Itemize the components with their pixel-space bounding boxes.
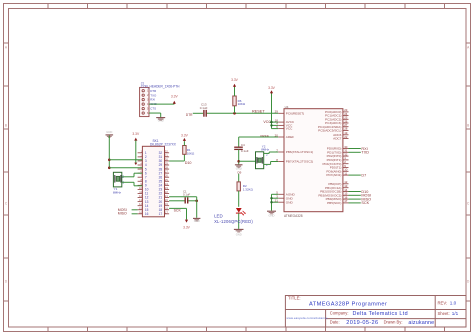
svg-text:SCK: SCK bbox=[174, 209, 182, 213]
svg-text:B: B bbox=[467, 124, 469, 128]
svg-text:TITLE:: TITLE: bbox=[288, 296, 301, 301]
svg-text:TXO: TXO bbox=[150, 93, 157, 97]
svg-text:10KΩ: 10KΩ bbox=[187, 151, 195, 155]
svg-text:DTR: DTR bbox=[186, 113, 193, 117]
svg-text:3.3V: 3.3V bbox=[268, 86, 276, 90]
svg-text:CON_HEADER_1X06-PTH: CON_HEADER_1X06-PTH bbox=[141, 85, 180, 89]
svg-text:17: 17 bbox=[159, 212, 163, 216]
svg-text:PD7(AIN1): PD7(AIN1) bbox=[326, 173, 341, 177]
svg-text:1.32KΩ: 1.32KΩ bbox=[243, 187, 254, 191]
svg-text:ATMEGA328: ATMEGA328 bbox=[284, 214, 303, 218]
svg-text:D9: D9 bbox=[238, 170, 242, 174]
svg-text:1/1: 1/1 bbox=[452, 311, 459, 316]
svg-text:0.1uF: 0.1uF bbox=[200, 106, 208, 110]
svg-text:TXD: TXD bbox=[361, 151, 369, 155]
svg-text:22: 22 bbox=[344, 135, 348, 139]
svg-text:PB7(XTAL2TOSC2): PB7(XTAL2TOSC2) bbox=[286, 160, 313, 164]
svg-text:3.3V: 3.3V bbox=[231, 78, 239, 82]
svg-text:GND: GND bbox=[158, 119, 164, 123]
svg-text:DTR: DTR bbox=[150, 89, 156, 93]
svg-text:REV:: REV: bbox=[438, 301, 448, 306]
svg-text:Date:: Date: bbox=[330, 320, 340, 325]
svg-text:DIL8S2P_2237XX: DIL8S2P_2237XX bbox=[150, 142, 177, 146]
svg-text:PB5(SCK): PB5(SCK) bbox=[327, 201, 341, 205]
svg-text:ATMEGA328P Programmer: ATMEGA328P Programmer bbox=[309, 301, 387, 307]
svg-text:0.1uF: 0.1uF bbox=[183, 192, 190, 196]
svg-text:B: B bbox=[5, 124, 7, 128]
svg-text:GND: GND bbox=[269, 214, 275, 218]
svg-text:17: 17 bbox=[344, 199, 348, 203]
svg-text:XL-1206QPC(RED): XL-1206QPC(RED) bbox=[214, 219, 253, 224]
svg-text:MISO: MISO bbox=[118, 212, 127, 216]
svg-text:1.0: 1.0 bbox=[450, 301, 457, 306]
svg-text:GND: GND bbox=[236, 233, 242, 237]
svg-text:RXI: RXI bbox=[150, 98, 155, 102]
svg-text:C4: C4 bbox=[241, 143, 245, 147]
svg-text:29: 29 bbox=[275, 110, 279, 114]
svg-text:GND: GND bbox=[106, 130, 112, 134]
svg-text:8MHz: 8MHz bbox=[261, 148, 269, 152]
svg-text:2019-05-26: 2019-05-26 bbox=[346, 320, 378, 326]
svg-text:11: 11 bbox=[344, 171, 347, 175]
svg-text:D10: D10 bbox=[185, 161, 192, 165]
svg-text:10KΩ: 10KΩ bbox=[238, 102, 246, 106]
svg-text:ADC7: ADC7 bbox=[333, 137, 342, 141]
svg-text:GND: GND bbox=[194, 219, 200, 223]
svg-text:CTS: CTS bbox=[150, 107, 156, 111]
svg-text:Drawn By:: Drawn By: bbox=[384, 320, 403, 325]
svg-text:AREF: AREF bbox=[286, 135, 294, 139]
svg-text:0.1uF: 0.1uF bbox=[241, 149, 249, 153]
svg-text:aizukanne: aizukanne bbox=[408, 320, 434, 326]
svg-text:Delta Telematics Ltd: Delta Telematics Ltd bbox=[353, 311, 408, 317]
svg-text:Sheet:: Sheet: bbox=[438, 311, 450, 316]
svg-text:PC5(ADC5/SCL): PC5(ADC5/SCL) bbox=[318, 129, 341, 133]
svg-text:www.easyeda.com/aizukanne: www.easyeda.com/aizukanne bbox=[287, 316, 328, 320]
svg-text:VCC: VCC bbox=[286, 127, 293, 131]
svg-text:3.3V: 3.3V bbox=[171, 94, 179, 98]
svg-text:RESET: RESET bbox=[252, 109, 265, 113]
svg-text:GND: GND bbox=[286, 200, 294, 204]
svg-text:SCK: SCK bbox=[361, 201, 369, 205]
svg-text:D7: D7 bbox=[361, 173, 366, 177]
svg-text:16: 16 bbox=[145, 212, 149, 216]
svg-text:PC6(RESET): PC6(RESET) bbox=[286, 111, 304, 115]
svg-text:3.3V: 3.3V bbox=[132, 132, 140, 136]
svg-text:20: 20 bbox=[275, 133, 279, 137]
svg-text:28: 28 bbox=[344, 127, 348, 131]
svg-text:8MHz: 8MHz bbox=[113, 190, 122, 194]
svg-text:3.3V: 3.3V bbox=[181, 134, 189, 138]
svg-text:3.3V: 3.3V bbox=[183, 225, 191, 229]
svg-text:U4: U4 bbox=[285, 105, 289, 109]
svg-text:Company:: Company: bbox=[330, 310, 349, 315]
svg-text:PB6(XTAL1TOSC1): PB6(XTAL1TOSC1) bbox=[286, 150, 313, 154]
